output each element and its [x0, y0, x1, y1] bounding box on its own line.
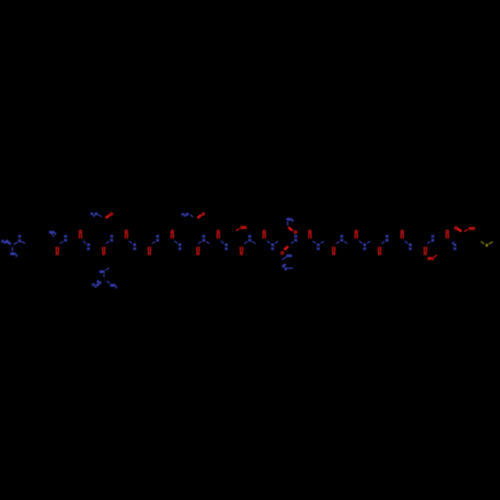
svg-text:O: O	[400, 229, 404, 234]
svg-text:H: H	[87, 247, 90, 251]
svg-text:N: N	[18, 239, 21, 243]
svg-text:H: H	[225, 247, 228, 251]
svg-text:N: N	[110, 239, 113, 243]
svg-text:O: O	[201, 211, 205, 216]
svg-text:H: H	[179, 247, 182, 251]
svg-text:NH: NH	[286, 254, 292, 258]
svg-text:HN: HN	[99, 270, 105, 274]
svg-text:H: H	[18, 234, 21, 238]
svg-text:N: N	[431, 239, 434, 243]
svg-text:H: H	[409, 247, 412, 251]
svg-text:O: O	[171, 229, 175, 234]
svg-text:H: H	[454, 247, 457, 251]
svg-text:O: O	[79, 229, 83, 234]
svg-text:O: O	[332, 251, 336, 256]
svg-text:H: H	[271, 247, 274, 251]
svg-text:N: N	[248, 239, 251, 243]
svg-text:O: O	[262, 229, 266, 234]
svg-text:O: O	[110, 212, 114, 217]
svg-text:O: O	[102, 251, 106, 256]
svg-text:H: H	[363, 247, 366, 251]
svg-text:O: O	[308, 229, 312, 234]
svg-text:O: O	[240, 251, 244, 256]
svg-text:O: O	[217, 229, 221, 234]
svg-text:N: N	[202, 239, 205, 243]
svg-text:N: N	[340, 239, 343, 243]
svg-text:O: O	[148, 251, 152, 256]
svg-text:N: N	[294, 239, 297, 243]
svg-text:O: O	[354, 229, 358, 234]
svg-text:N: N	[156, 239, 159, 243]
svg-text:N: N	[284, 267, 287, 271]
svg-text:N: N	[386, 239, 389, 243]
svg-text:O: O	[196, 251, 200, 256]
svg-text:N: N	[64, 239, 67, 243]
svg-text:O: O	[446, 229, 450, 234]
svg-text:OH: OH	[469, 226, 476, 231]
svg-text:O: O	[56, 251, 60, 256]
svg-text:O: O	[294, 230, 298, 235]
svg-text:OH: OH	[240, 225, 247, 230]
svg-text:HO: HO	[428, 256, 435, 261]
svg-text:O: O	[125, 229, 129, 234]
svg-text:O: O	[281, 250, 285, 255]
svg-text:H: H	[133, 247, 136, 251]
svg-text:H: H	[317, 247, 320, 251]
svg-text:O: O	[378, 251, 382, 256]
